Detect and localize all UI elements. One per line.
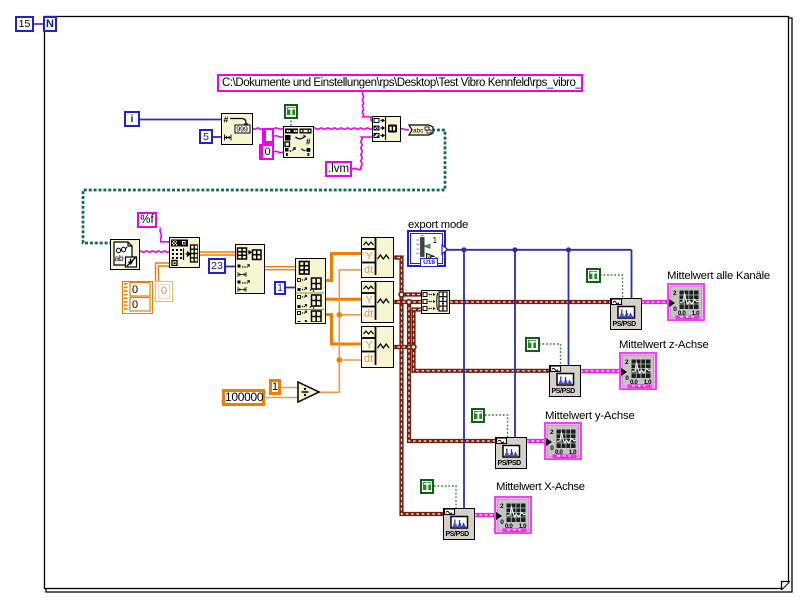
wire: empty string constant to Search-Replace input 2 <box>274 136 284 137</box>
wire: .lvm constant to Concatenate Strings input 3 <box>352 168 362 169</box>
svg-text:999: 999 <box>236 125 248 134</box>
empty string constant <box>262 128 274 144</box>
wire: export mode branch to Spectral Measurements 2 <box>568 250 570 365</box>
wire: boolean T3 to Spectral Measurements 3 <box>485 415 508 437</box>
svg-text:0: 0 <box>132 284 138 296</box>
wire: branch to Merge Signals input 1 <box>402 292 422 296</box>
wire: constant 1 to Index Array index input <box>286 287 295 289</box>
wire: branch down to Spectral Measurements 3 <box>409 302 496 441</box>
for-loop resize grip (corner fold) <box>782 582 791 591</box>
svg-text:PS/PSD: PS/PSD <box>552 388 576 395</box>
Build Waveform node 2 <box>361 281 394 323</box>
wire: iteration terminal i to Number To Fractional String <box>140 119 221 121</box>
svg-text:2: 2 <box>673 290 677 297</box>
Spectral Measurements 4 (PS/PSD) <box>443 508 475 540</box>
svg-text:2: 2 <box>550 429 554 436</box>
wire: branch up to Merge Signals input 3 <box>414 310 422 348</box>
wire: constant 5 to Number To Fractional String width input <box>213 136 221 138</box>
Read File VI icon <box>110 239 140 270</box>
svg-text:0: 0 <box>550 445 554 452</box>
svg-text:dt: dt <box>364 264 373 276</box>
wire: .lvm riser <box>361 137 372 169</box>
label export mode <box>408 219 478 231</box>
junction: blue dot 1 <box>461 247 466 252</box>
iteration terminal i <box>124 111 140 127</box>
svg-text:0: 0 <box>673 306 677 313</box>
wire: path from String To Path around to Read File VI <box>83 130 445 243</box>
junction: blue dot 2 <box>512 247 517 252</box>
svg-text:ab: ab <box>115 253 124 263</box>
wire: 2D array from default 0 constant up into Spreadsheet String To Array <box>156 263 170 281</box>
junction: dynamic wire ring 1 <box>399 292 404 297</box>
path string constant <box>217 74 583 92</box>
Search and Replace String node <box>283 126 314 158</box>
wire: export mode branch to Spectral Measurements 3 <box>514 250 516 437</box>
wire: Spectral Measurements 3 to graph Mittelwert y-Achse <box>526 439 546 443</box>
svg-text:#: # <box>224 115 229 125</box>
svg-text:abc: abc <box>413 128 424 135</box>
Number To Fractional String node <box>221 113 253 145</box>
boolean constant T4 <box>420 479 435 494</box>
label Mittelwert X-Achse <box>496 481 616 493</box>
loop count constant 15 <box>15 16 34 32</box>
string constant %f <box>137 212 157 228</box>
wire: Index Array output 3 to Build Waveform 3 Y <box>326 315 361 344</box>
svg-text:Y: Y <box>365 295 373 307</box>
wire: constant 23 to Array Subset index input <box>226 266 235 268</box>
svg-text:Y: Y <box>365 250 373 262</box>
wire: boolean T2 to Spectral Measurements 2 <box>539 344 561 365</box>
wire: boolean T4 to Spectral Measurements 4 <box>434 486 456 508</box>
constant 1 (index) <box>274 281 286 295</box>
wire: Spectral Measurements 2 to graph Mittelwert z-Achse <box>580 369 621 373</box>
boolean constant T (top) <box>284 104 299 119</box>
wire: string over constants to Search-Replace input 1 <box>274 128 284 129</box>
constant 1 (numerator) <box>269 379 281 395</box>
svg-text:2: 2 <box>500 503 504 510</box>
wire: %f format constant to Spreadsheet String To Array <box>160 228 169 242</box>
wire: loop count 15 to N terminal <box>34 23 44 25</box>
wire: divide output to dt rail <box>317 270 361 392</box>
Spectral Measurements 3 (PS/PSD) <box>495 437 527 469</box>
svg-text:PS/PSD: PS/PSD <box>446 531 470 538</box>
svg-text:dt: dt <box>364 353 373 365</box>
Merge Signals node <box>421 290 450 314</box>
waveform graph Mittelwert y-Achse <box>544 422 582 460</box>
wire: constant 100000 to divide input <box>265 397 299 399</box>
wire: dt rail branch to Build Waveform 2 dt <box>339 314 361 316</box>
Spreadsheet String To Array node <box>169 237 200 268</box>
Build Waveform node 3 <box>361 326 394 368</box>
constant 23 <box>208 258 226 274</box>
wire: Index Array output 1 to Build Waveform 1 Y <box>326 254 361 281</box>
wire: boolean T1 to Spectral Measurements 1 <box>600 275 623 298</box>
wire: Concatenate Strings output to String To Path <box>400 129 409 130</box>
export mode slide control terminal <box>407 230 446 267</box>
wire: export mode branch to Spectral Measurements 1 <box>631 250 633 298</box>
wire: boolean T to Search-Replace node <box>290 117 292 127</box>
wire: Spectral Measurements 1 to graph Mittelwert alle Kanaele <box>641 300 669 304</box>
wire: export mode rail <box>446 249 632 251</box>
wire: 2D array Array Subset to Index Array <box>265 267 295 270</box>
constant 5 <box>199 129 213 144</box>
svg-text:1: 1 <box>433 235 438 245</box>
label Mittelwert y-Achse <box>545 410 665 422</box>
svg-text:0: 0 <box>500 519 504 526</box>
Spectral Measurements 2 (PS/PSD) <box>549 365 581 397</box>
string constant .lvm <box>325 161 352 177</box>
boolean constant T3 <box>471 408 486 423</box>
junction: dynamic wire ring 3 <box>411 345 416 350</box>
waveform graph Mittelwert X-Achse <box>494 496 532 534</box>
string constant 0 <box>259 144 274 161</box>
junction: dt rail dot 1 <box>337 312 343 318</box>
dimmed default constant 0 <box>155 281 173 302</box>
wire: Build Waveform 2 output to Merge Signals input 2 <box>392 300 421 304</box>
junction: blue dot 3 <box>566 247 571 252</box>
Array Subset node <box>235 244 265 294</box>
wire: Index Array output 2 to Build Waveform 2 Y <box>326 298 361 301</box>
boolean constant T2 <box>525 337 540 352</box>
wire: Merge Signals output to Spectral Measurements 1 <box>450 300 611 304</box>
waveform graph Mittelwert alle Kanaele <box>667 283 705 321</box>
wire: Read File VI output to Spreadsheet String To Array <box>139 251 169 252</box>
wire: branch down to Spectral Measurements 2 <box>414 347 551 371</box>
wire: number string to string constants block <box>250 128 263 129</box>
svg-text:#: # <box>306 138 311 147</box>
svg-text:0: 0 <box>625 375 629 382</box>
Concatenate Strings node <box>372 116 401 142</box>
waveform graph Mittelwert z-Achse <box>619 352 657 390</box>
svg-text:0: 0 <box>132 299 138 311</box>
loop N terminal <box>43 16 57 32</box>
svg-text:Y: Y <box>365 340 373 352</box>
wire: Spectral Measurements 4 to graph Mittelwert X-Achse <box>474 513 496 517</box>
svg-text:PS/PSD: PS/PSD <box>498 460 522 467</box>
junction: dynamic wire ring 2 <box>407 300 412 305</box>
wire: string constant 0 to Search-Replace input 3 <box>274 151 284 152</box>
label Mittelwert z-Achse <box>619 339 739 351</box>
wire: dt rail branch to Build Waveform 3 dt <box>339 359 361 361</box>
Index Array node <box>295 258 326 324</box>
svg-text:PS/PSD: PS/PSD <box>613 321 637 328</box>
junction: dt rail dot 2 <box>337 357 343 363</box>
wire: Build Waveform 1 output down to Spectral Measurements 4 <box>392 258 444 515</box>
wire: export mode branch to Spectral Measurements 4 <box>463 250 465 508</box>
divide function <box>297 381 321 403</box>
wire: 2D array Spreadsheet String To Array to Array Subset <box>199 252 235 255</box>
wire: constant 1 to divide input <box>281 387 299 389</box>
wire: path string constant down to Concatenate Strings input 1 <box>362 92 372 121</box>
wire: Build Waveform 3 output toward junction <box>392 345 414 349</box>
cluster constant 0,0 <box>122 281 153 314</box>
Build Waveform node 1 <box>361 237 394 279</box>
constant 100000 <box>222 389 265 406</box>
svg-text:dt: dt <box>364 308 373 320</box>
String To Path node <box>408 124 434 136</box>
svg-text:2: 2 <box>625 359 629 366</box>
label Mittelwert alle Kanaele <box>667 270 807 282</box>
Spectral Measurements 1 (PS/PSD) <box>610 298 642 330</box>
wire: Search-Replace output to Concatenate Strings input 2 <box>313 128 372 129</box>
boolean constant T1 <box>586 268 601 283</box>
